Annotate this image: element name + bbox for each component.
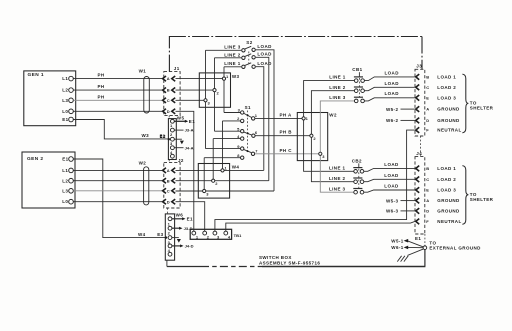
svg-text:SHELTER: SHELTER bbox=[470, 106, 494, 111]
S2 linkage bbox=[248, 52, 250, 67]
connector J4 pin B LOAD 1 bbox=[416, 166, 456, 172]
svg-text:LINE 3: LINE 3 bbox=[329, 186, 346, 191]
svg-text:C: C bbox=[426, 177, 429, 182]
TB1 pin 2 bbox=[203, 231, 210, 239]
svg-text:W4: W4 bbox=[232, 164, 240, 169]
svg-text:TB1: TB1 bbox=[234, 233, 243, 238]
arrow W6-1 from E1 stud bbox=[391, 245, 423, 250]
svg-text:E1: E1 bbox=[415, 236, 421, 241]
svg-text:E1: E1 bbox=[189, 119, 195, 124]
border dash J1 to E2 bbox=[168, 116, 170, 119]
terminal GEN2-L0 bbox=[69, 199, 74, 204]
svg-text:LINE 3: LINE 3 bbox=[329, 95, 346, 100]
svg-text:L3: L3 bbox=[62, 98, 68, 103]
cable W2 bbox=[139, 160, 149, 205]
svg-text:LINE 3: LINE 3 bbox=[224, 45, 241, 50]
wire GEN2-L1 to J2-A bbox=[73, 169, 162, 171]
node W2-2 bbox=[310, 134, 317, 141]
svg-text:LOAD: LOAD bbox=[385, 71, 400, 76]
svg-text:SHELTER: SHELTER bbox=[470, 197, 494, 202]
svg-text:PH: PH bbox=[98, 94, 105, 99]
connector J1 pin D bbox=[163, 109, 176, 114]
connector J2 pin C bbox=[163, 188, 176, 193]
svg-text:A: A bbox=[426, 198, 429, 203]
svg-text:PH B: PH B bbox=[280, 130, 293, 135]
wire GEN2-L3 to J2-C bbox=[73, 190, 162, 192]
wire riser W4 node2 to S1 contact 4 bbox=[212, 139, 214, 181]
connector J2 pin D bbox=[163, 199, 176, 204]
junction box W2 bbox=[297, 113, 337, 161]
generator GEN 1 bbox=[24, 71, 76, 126]
terminal GEN2-L1 bbox=[69, 168, 74, 173]
svg-text:LINE 1: LINE 1 bbox=[224, 61, 241, 66]
external ground symbol bbox=[397, 249, 423, 262]
svg-text:NEUTRAL: NEUTRAL bbox=[437, 128, 461, 133]
svg-text:SWITCH BOX: SWITCH BOX bbox=[259, 255, 292, 260]
wire J1-A to W3 node 1 bbox=[176, 78, 225, 80]
svg-text:W2: W2 bbox=[139, 160, 147, 165]
svg-text:E1: E1 bbox=[187, 217, 193, 222]
E3 terminal 3 junction with ground symbol bbox=[165, 236, 181, 243]
svg-text:C: C bbox=[167, 98, 170, 103]
wire GEN1-L0 to J1-D bbox=[73, 110, 162, 112]
wire GEN2-L0 to J2-D bbox=[73, 201, 162, 203]
border E3 down to bottom edge bbox=[166, 260, 168, 266]
svg-text:LOAD 2: LOAD 2 bbox=[437, 85, 456, 90]
svg-text:E: E bbox=[426, 95, 429, 100]
svg-text:LOAD: LOAD bbox=[384, 173, 399, 178]
border dash J2 to E3 bbox=[167, 208, 169, 214]
wire LINE 2 to S2 bbox=[215, 52, 242, 57]
wire riser W4 node3 to S1 contact 8 bbox=[203, 158, 205, 191]
CB2 pole 1 bbox=[329, 165, 364, 173]
svg-text:E1: E1 bbox=[62, 117, 68, 122]
cable W1 bbox=[139, 69, 150, 113]
svg-text:GROUND: GROUND bbox=[437, 107, 460, 112]
connector J3 pin D GROUND with stub W6-2 bbox=[386, 118, 460, 124]
svg-text:GROUND: GROUND bbox=[437, 209, 460, 214]
wire J1-B to W3 node 2 bbox=[176, 89, 215, 91]
title SWITCH BOX ASSEMBLY bbox=[259, 255, 320, 266]
svg-text:J3: J3 bbox=[416, 64, 422, 69]
svg-text:E2: E2 bbox=[160, 134, 166, 139]
wire W2 node3 riser to CB1 LINE3 and CB2 LINE3 bbox=[320, 101, 354, 192]
svg-text:EXTERNAL GROUND: EXTERNAL GROUND bbox=[429, 246, 481, 251]
node W3-1 bbox=[222, 74, 229, 80]
svg-text:PH: PH bbox=[98, 84, 105, 89]
svg-text:W3: W3 bbox=[232, 74, 240, 79]
wire PH C from S1 common 7 to W2 node 3 bbox=[255, 148, 320, 154]
svg-text:PH A: PH A bbox=[280, 112, 293, 117]
arrow W5-1 from E1 stud bbox=[391, 238, 423, 247]
node W2-1 bbox=[302, 116, 309, 121]
svg-text:F: F bbox=[426, 219, 429, 224]
connector J1 pin B bbox=[163, 88, 176, 93]
E3 terminal 5 bbox=[168, 252, 172, 256]
svg-text:NEUTRAL: NEUTRAL bbox=[437, 219, 461, 224]
E3 terminal 1 with stub to E1 bbox=[168, 217, 193, 222]
CB1 pole 2 bbox=[329, 85, 364, 93]
wire riser W3 node2 / LINE 2 / S1 contact 5 bbox=[214, 58, 216, 131]
TB1 pin 4 bbox=[224, 231, 231, 239]
generator GEN 2 bbox=[22, 152, 75, 208]
switch box border top bbox=[169, 37, 423, 72]
connector J4 pin C LOAD 2 bbox=[416, 177, 456, 183]
svg-text:LOAD: LOAD bbox=[384, 162, 399, 167]
svg-text:E3: E3 bbox=[157, 232, 163, 237]
svg-text:J4-D: J4-D bbox=[185, 244, 194, 249]
wire riser W4 node1 to S1 contact 2 bbox=[222, 121, 224, 170]
S1 pole A: contacts 3,2 common 1 bbox=[223, 108, 258, 123]
connector J3 pin E LOAD 3 bbox=[416, 95, 456, 101]
svg-text:LOAD: LOAD bbox=[257, 52, 272, 57]
connector J3 pin A GROUND with stub W5-2 bbox=[386, 106, 460, 112]
S1 pole C: contacts 9,8 common 7 bbox=[204, 144, 258, 160]
wire W2 node2 riser to CB1 LINE2 and CB2 LINE2 bbox=[311, 91, 354, 182]
wire LINE 1 to S2 bbox=[224, 61, 241, 67]
svg-text:LOAD 1: LOAD 1 bbox=[437, 166, 456, 171]
svg-text:F: F bbox=[426, 128, 429, 133]
terminal GEN2-L2 bbox=[69, 178, 74, 183]
terminal GEN1-L0 bbox=[69, 109, 74, 114]
svg-text:W6-3: W6-3 bbox=[386, 209, 398, 214]
svg-text:ASSEMBLY SM-F-955716: ASSEMBLY SM-F-955716 bbox=[259, 261, 320, 266]
terminal GEN2-E1 bbox=[69, 157, 74, 162]
svg-text:L2: L2 bbox=[62, 88, 68, 93]
svg-text:CB1: CB1 bbox=[352, 67, 362, 72]
terminal board TB1 bbox=[190, 229, 242, 239]
node W4-2 bbox=[212, 179, 219, 186]
svg-text:LINE 1: LINE 1 bbox=[329, 165, 346, 170]
connector J4 bbox=[415, 151, 425, 234]
E2 terminal 1 with stub to E1 bbox=[171, 119, 196, 124]
wire S2 LOAD of LINE3 to W4 node3 riser bbox=[256, 44, 274, 191]
S1 linkage bbox=[247, 111, 249, 153]
svg-text:A: A bbox=[167, 168, 170, 173]
terminal GEN1-L2 bbox=[69, 88, 74, 93]
node W4-3 bbox=[203, 189, 210, 196]
wire W2 node1 riser to CB1 LINE1 and CB2 LINE1 bbox=[304, 81, 355, 172]
S2 pole LINE3 contacts and blade bbox=[242, 46, 256, 52]
connector J2 pin A bbox=[163, 168, 176, 173]
connector J2 bbox=[164, 158, 184, 208]
wire LINE 3 to S2 bbox=[206, 45, 242, 51]
brace TO SHELTER upper bbox=[462, 74, 493, 133]
svg-text:LINE 2: LINE 2 bbox=[329, 176, 346, 181]
svg-text:W5-2: W5-2 bbox=[386, 107, 398, 112]
svg-text:W6: W6 bbox=[176, 213, 184, 218]
E2 terminal 4 with stub to J4-A bbox=[171, 145, 194, 150]
wire PH A from S1 common 1 to W2 node 1 bbox=[255, 112, 304, 118]
wire CB1 pole1 LOAD to J3-B bbox=[364, 71, 414, 81]
junction box W4 bbox=[198, 164, 239, 199]
dashed link J3 to J4 bbox=[420, 136, 422, 157]
connector J3 pin F NEUTRAL bbox=[416, 127, 462, 133]
node W3-2 bbox=[213, 89, 220, 96]
terminal GEN1-E1 bbox=[69, 117, 74, 122]
svg-text:W1: W1 bbox=[139, 69, 147, 74]
wire J2-C to W4 node 3 bbox=[176, 190, 275, 192]
TB1 pin 1 bbox=[192, 231, 199, 239]
svg-text:A: A bbox=[426, 107, 429, 112]
wire PH B from S1 common 6 to W2 node 2 bbox=[255, 130, 311, 136]
svg-text:J4: J4 bbox=[416, 151, 422, 156]
S2 pole LINE2 contacts and blade bbox=[242, 54, 256, 60]
svg-text:D: D bbox=[167, 109, 170, 114]
svg-text:J3-D: J3-D bbox=[184, 226, 193, 231]
wire J1-D to TB1 pin 1 bbox=[176, 111, 194, 231]
svg-text:J4-A: J4-A bbox=[185, 145, 194, 150]
connector J3 pin B LOAD 1 bbox=[416, 74, 456, 80]
terminal GEN1-L1 bbox=[69, 76, 74, 81]
svg-text:W4: W4 bbox=[138, 232, 146, 237]
connector J1 pin A bbox=[163, 76, 176, 81]
connector J4 pin F NEUTRAL bbox=[416, 219, 462, 225]
wire CB2 pole2 LOAD to J4-C bbox=[364, 173, 415, 182]
wire S2 LOAD of LINE2 to W4 node2 riser bbox=[256, 52, 272, 181]
svg-text:E1: E1 bbox=[62, 157, 68, 162]
wire TB1-4 neutral to J4-F bbox=[226, 221, 415, 231]
E2 terminal 5 bbox=[171, 154, 175, 158]
TB1 pin 3 bbox=[213, 231, 220, 239]
svg-text:W6-2: W6-2 bbox=[386, 118, 398, 123]
svg-text:C: C bbox=[426, 85, 429, 90]
svg-text:W6-1: W6-1 bbox=[391, 245, 403, 250]
connector J1 pin C bbox=[163, 98, 176, 103]
node W2-3 bbox=[319, 152, 326, 159]
svg-text:GEN 1: GEN 1 bbox=[28, 72, 44, 78]
svg-text:LOAD: LOAD bbox=[257, 61, 272, 66]
border dash E2 to J2 bbox=[168, 160, 170, 163]
S1 pole B: contacts 5,4 common 6 bbox=[213, 126, 258, 140]
switch box border bottom bbox=[167, 266, 426, 268]
ground stud E2 strip bbox=[168, 115, 184, 159]
wire CB2 pole3 LOAD to J4-E bbox=[364, 183, 415, 192]
CB2 pole 2 bbox=[329, 176, 364, 184]
svg-text:L1: L1 bbox=[62, 168, 68, 173]
wire CB1 pole2 LOAD to J3-C bbox=[364, 81, 414, 91]
E3 terminal 4 with stub to J4-D bbox=[168, 244, 194, 249]
svg-text:L1: L1 bbox=[62, 76, 68, 81]
wire GEN1-L3 to J1-C, label PH bbox=[73, 94, 162, 100]
svg-text:L0: L0 bbox=[62, 199, 68, 204]
wire J2-A to W4 node 1 bbox=[176, 169, 264, 171]
svg-text:GROUND: GROUND bbox=[437, 198, 460, 203]
svg-text:S1: S1 bbox=[245, 105, 251, 110]
brace TO SHELTER lower bbox=[462, 166, 493, 225]
wire GEN2-L2 to J2-B bbox=[73, 180, 162, 182]
wire J1-C to W3 node 3 bbox=[176, 99, 206, 101]
svg-text:GEN 2: GEN 2 bbox=[27, 156, 43, 162]
E3 terminal 2 with stub to J3-D bbox=[168, 226, 193, 231]
label TO EXTERNAL GROUND bbox=[429, 241, 481, 251]
CB2 pole 3 bbox=[329, 186, 364, 194]
svg-text:W5: W5 bbox=[177, 115, 185, 120]
svg-text:LINE 2: LINE 2 bbox=[329, 85, 346, 90]
svg-text:L0: L0 bbox=[62, 109, 68, 114]
wire CB1 pole3 LOAD to J3-E bbox=[364, 91, 414, 101]
junction box W3 bbox=[199, 73, 239, 107]
svg-text:L3: L3 bbox=[62, 188, 68, 193]
wire TB1-3 neutral to J3-F bbox=[215, 130, 415, 231]
svg-text:W5-3: W5-3 bbox=[386, 198, 398, 203]
wire riser W3 node1 / LINE 1 / S1 contact 3 bbox=[223, 67, 225, 113]
E2 terminal 2 with stub to J3-A bbox=[171, 128, 194, 133]
svg-text:CB2: CB2 bbox=[352, 158, 362, 163]
wire GEN1-E1 to ground stud E2, labels W3 E2 bbox=[73, 120, 168, 140]
svg-text:PH C: PH C bbox=[280, 148, 293, 153]
svg-text:S2: S2 bbox=[246, 40, 252, 45]
terminal GEN1-L3 bbox=[69, 98, 74, 103]
svg-text:D: D bbox=[167, 199, 170, 204]
ground stud E3 strip bbox=[165, 213, 183, 261]
svg-text:LOAD 1: LOAD 1 bbox=[437, 75, 456, 80]
svg-text:GROUND: GROUND bbox=[437, 118, 460, 123]
wire riser W3 node3 / LINE 3 / S1 contact 9 bbox=[205, 50, 207, 148]
CB2 linkage stem bbox=[358, 163, 360, 188]
svg-text:W5-1: W5-1 bbox=[391, 238, 403, 243]
svg-text:B: B bbox=[167, 178, 170, 183]
svg-text:C: C bbox=[167, 188, 170, 193]
svg-text:L2: L2 bbox=[62, 178, 68, 183]
svg-text:D: D bbox=[426, 118, 429, 123]
connector J3 bbox=[415, 64, 425, 136]
svg-text:W2: W2 bbox=[329, 113, 337, 118]
svg-text:E: E bbox=[426, 188, 429, 193]
CB1 linkage stem bbox=[358, 72, 360, 97]
CB1 pole 3 bbox=[329, 95, 364, 103]
svg-text:LINE 1: LINE 1 bbox=[329, 75, 346, 80]
wire CB2 pole1 LOAD to J4-B bbox=[364, 162, 415, 171]
CB1 pole 1 bbox=[329, 75, 364, 83]
node W4-1 bbox=[221, 166, 228, 172]
wire GEN1-L1 to J1-A, label PH bbox=[73, 73, 162, 79]
svg-text:LOAD: LOAD bbox=[257, 44, 272, 49]
svg-text:LOAD 3: LOAD 3 bbox=[437, 95, 456, 100]
svg-text:LOAD: LOAD bbox=[385, 81, 400, 86]
connector J3 pin C LOAD 2 bbox=[416, 85, 456, 91]
svg-text:PH: PH bbox=[98, 73, 105, 78]
svg-text:B: B bbox=[167, 88, 170, 93]
wire GEN2-E1 to ground stud E3, labels W4 E3 bbox=[73, 159, 165, 238]
svg-text:J2: J2 bbox=[178, 158, 184, 163]
svg-text:W3: W3 bbox=[142, 133, 150, 138]
E2 terminal 3 junction with ground symbol bbox=[168, 137, 184, 144]
external ground stud E1 bbox=[415, 236, 427, 250]
svg-text:A: A bbox=[167, 76, 170, 81]
connector J4 pin E LOAD 3 bbox=[416, 187, 456, 193]
svg-text:LOAD 2: LOAD 2 bbox=[437, 177, 456, 182]
svg-text:LINE 2: LINE 2 bbox=[224, 52, 241, 57]
wire S2 LOAD of LINE1 to W4 node1 riser bbox=[256, 61, 272, 171]
wire E1 stud to bottom border bbox=[424, 250, 426, 267]
node W3-3 bbox=[204, 99, 211, 106]
svg-text:LOAD: LOAD bbox=[384, 183, 399, 188]
connector J1 bbox=[164, 66, 180, 115]
dashed link J4 to E1 stud bbox=[424, 234, 426, 246]
S2 pole LINE1 contacts and blade bbox=[242, 63, 256, 69]
svg-text:B: B bbox=[426, 166, 429, 171]
wire J2-D to TB1 pin 2 bbox=[176, 202, 205, 232]
connector J4 pin D GROUND with stub W6-3 bbox=[386, 208, 460, 214]
wire GEN1-L2 to J1-B, label PH bbox=[73, 84, 162, 90]
svg-text:J1: J1 bbox=[174, 66, 180, 71]
svg-text:LOAD 3: LOAD 3 bbox=[437, 188, 456, 193]
svg-text:D: D bbox=[426, 208, 429, 213]
svg-text:B: B bbox=[426, 74, 429, 79]
connector J2 pin B bbox=[163, 178, 176, 183]
svg-text:J3-A: J3-A bbox=[185, 128, 194, 133]
terminal GEN2-L3 bbox=[69, 189, 74, 194]
connector J4 pin A GROUND with stub W5-3 bbox=[386, 198, 460, 204]
svg-text:LOAD: LOAD bbox=[385, 91, 400, 96]
wire J2-B to W4 node 2 bbox=[176, 180, 269, 182]
